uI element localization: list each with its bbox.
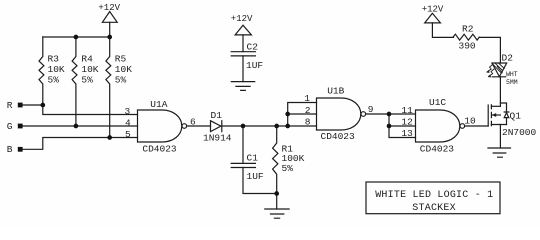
node R1/C1 ground junction — [274, 191, 279, 196]
svg-text:1UF: 1UF — [247, 171, 264, 182]
text box border — [366, 182, 500, 214]
Q1 gate plate — [487, 105, 489, 126]
Q1 body diode branch — [500, 103, 506, 125]
wire pull-up rail — [43, 36, 110, 38]
svg-text:5MM: 5MM — [506, 79, 518, 86]
svg-text:Q1: Q1 — [510, 111, 522, 122]
svg-text:5%: 5% — [48, 75, 60, 86]
wire U1B output pin 9 to U1C riser — [366, 113, 389, 115]
wire D2 cathode to Q1 drain — [499, 77, 501, 107]
svg-text:D1: D1 — [211, 110, 223, 121]
svg-text:WHT: WHT — [506, 71, 518, 78]
svg-text:D2: D2 — [502, 53, 514, 64]
svg-text:U1C: U1C — [429, 97, 446, 108]
node R1 tap junction — [274, 124, 279, 129]
svg-text:U1A: U1A — [150, 99, 167, 110]
input terminal R — [18, 103, 23, 108]
svg-text:5%: 5% — [115, 75, 127, 86]
svg-text:4: 4 — [125, 117, 131, 128]
Q1 source connection — [491, 124, 506, 126]
wire Q1 source to ground — [499, 125, 501, 149]
capacitor C1 plates — [231, 163, 255, 167]
Q1 body arrow — [492, 114, 501, 116]
svg-text:6: 6 — [190, 116, 196, 127]
svg-text:G: G — [7, 121, 13, 132]
node U1B pin8 junction — [285, 124, 290, 129]
wire C1 tap from node — [242, 126, 244, 163]
svg-text:B: B — [7, 144, 13, 155]
power +12V symbol (over C2) — [235, 25, 251, 35]
wire U1C output pin 10 to Q1 gate — [465, 125, 489, 127]
svg-text:R5: R5 — [115, 54, 127, 65]
wire R2 to D2 anode — [479, 37, 500, 63]
node U1B pin2 junction — [285, 112, 290, 117]
svg-text:+12V: +12V — [98, 3, 120, 13]
node U1C pin12 junction — [387, 124, 392, 129]
svg-text:CD4023: CD4023 — [321, 131, 356, 142]
ground (under Q1) — [488, 148, 511, 157]
U1C output inversion bubble — [460, 124, 465, 129]
node U1C pin11 junction — [387, 112, 392, 117]
svg-text:CD4023: CD4023 — [420, 143, 455, 154]
wire D1 cathode to U1B riser — [222, 125, 288, 127]
wire +12V to C2 — [242, 35, 244, 52]
svg-text:12: 12 — [401, 117, 413, 128]
svg-text:1N914: 1N914 — [203, 133, 232, 144]
diode D1 1N914 — [211, 121, 222, 132]
node G input junction — [74, 124, 79, 129]
svg-text:U1B: U1B — [327, 86, 344, 97]
LED D2 — [492, 63, 507, 77]
node rail-R5 junction — [107, 35, 112, 40]
wire input R to junction and jog to U1A pin 3 — [23, 105, 138, 115]
svg-text:390: 390 — [459, 40, 476, 51]
svg-text:9: 9 — [368, 104, 374, 115]
resistor R3 — [39, 37, 44, 105]
power +12V symbol (right, over R2) — [425, 13, 441, 23]
node R input junction — [40, 103, 45, 108]
wire U1C input riser (pins 11,12,13 tied) — [389, 114, 416, 138]
svg-text:2N7000: 2N7000 — [502, 127, 537, 138]
svg-text:CD4023: CD4023 — [142, 144, 177, 155]
wire C1 bottom to ground junction — [243, 168, 277, 194]
resistor R1 — [273, 126, 278, 194]
power +12V symbol (left, over pull-up rail) — [102, 12, 117, 23]
svg-text:R2: R2 — [462, 24, 474, 35]
ground (under R1/C1) — [265, 209, 289, 218]
Q1 drain connection — [491, 105, 500, 107]
node rail-R4 junction — [74, 35, 79, 40]
op-amp U1C (3-input NAND gate CD4023) body — [416, 110, 460, 142]
op-amp U1B (3-input NAND gate CD4023) body — [317, 98, 361, 130]
ground (under C2) — [231, 82, 254, 91]
op-amp U1A (3-input NAND gate CD4023) body — [138, 110, 182, 142]
D2 hatch fill — [493, 64, 504, 73]
svg-text:10: 10 — [464, 116, 476, 127]
svg-text:3: 3 — [125, 106, 131, 117]
svg-text:10K: 10K — [81, 64, 98, 75]
svg-text:13: 13 — [401, 128, 413, 139]
svg-text:5: 5 — [125, 129, 131, 140]
svg-text:C1: C1 — [247, 153, 259, 164]
resistor R4 — [72, 37, 77, 126]
wire U1A output pin 6 to D1 anode — [187, 125, 211, 127]
svg-text:+12V: +12V — [422, 4, 444, 14]
wire U1B input riser (pins 1,2,8 tied) — [288, 103, 317, 127]
Q1 body diode symbol — [504, 112, 509, 118]
wire C2 to ground — [242, 56, 244, 82]
svg-text:+12V: +12V — [231, 14, 253, 24]
node junction dots — [18, 35, 392, 196]
svg-text:5%: 5% — [282, 163, 294, 174]
svg-text:2: 2 — [305, 105, 311, 116]
svg-text:R4: R4 — [81, 54, 93, 65]
U1A output inversion bubble — [182, 124, 187, 129]
wire input G to U1A pin 4 — [23, 125, 138, 127]
resistor R5 — [106, 37, 111, 138]
wire input B jog to U1A pin 5 — [23, 138, 138, 150]
Q1 channel segments — [490, 105, 492, 126]
svg-text:10K: 10K — [115, 64, 132, 75]
svg-text:R3: R3 — [48, 54, 60, 65]
svg-text:10K: 10K — [48, 64, 65, 75]
svg-text:8: 8 — [305, 117, 311, 128]
wire +12V stem to rail — [109, 22, 111, 37]
svg-text:WHITE LED LOGIC - 1: WHITE LED LOGIC - 1 — [375, 190, 493, 201]
wire +12V stem to R2 — [432, 23, 453, 38]
wire R1 bottom to ground — [276, 194, 278, 210]
capacitor C2 plates — [231, 52, 255, 56]
U1B output inversion bubble — [361, 112, 366, 117]
svg-text:11: 11 — [401, 105, 413, 116]
svg-text:1UF: 1UF — [246, 60, 263, 71]
svg-text:1: 1 — [304, 93, 310, 104]
resistor R2 — [453, 34, 479, 40]
svg-text:5%: 5% — [81, 75, 93, 86]
input terminal B — [18, 147, 23, 152]
svg-text:R: R — [7, 100, 13, 111]
svg-text:C2: C2 — [247, 41, 259, 52]
input terminal G — [18, 124, 23, 129]
svg-text:STACKEX: STACKEX — [412, 203, 456, 214]
node C1 tap junction — [241, 124, 246, 129]
node B input junction — [107, 135, 112, 140]
D2 light emission arrows — [487, 65, 494, 77]
